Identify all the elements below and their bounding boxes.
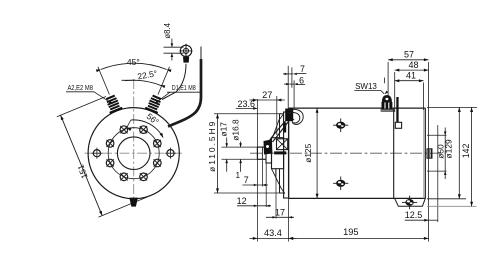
svg-text:41: 41 xyxy=(406,70,416,80)
svg-text:27: 27 xyxy=(262,90,272,100)
svg-text:ø129: ø129 xyxy=(443,139,453,158)
svg-text:45°: 45° xyxy=(127,57,140,67)
svg-text:ø125: ø125 xyxy=(303,143,313,162)
svg-text:ø110.5H9: ø110.5H9 xyxy=(207,120,217,172)
svg-text:ø17: ø17 xyxy=(219,122,229,137)
svg-text:A2,E2 M8: A2,E2 M8 xyxy=(67,83,93,92)
svg-text:48: 48 xyxy=(408,60,418,70)
svg-text:SW13: SW13 xyxy=(355,82,377,91)
svg-text:7: 7 xyxy=(300,64,305,74)
svg-text:D1,E1 M8: D1,E1 M8 xyxy=(172,83,196,92)
svg-text:23.6: 23.6 xyxy=(238,99,256,109)
svg-text:43.4: 43.4 xyxy=(264,228,282,238)
svg-text:57: 57 xyxy=(404,49,414,59)
svg-text:6: 6 xyxy=(299,75,304,85)
svg-text:7: 7 xyxy=(244,175,249,185)
svg-text:17: 17 xyxy=(275,208,285,218)
svg-text:ø8.4: ø8.4 xyxy=(163,22,172,38)
svg-text:142: 142 xyxy=(461,143,471,158)
svg-text:1: 1 xyxy=(236,171,241,180)
svg-text:195: 195 xyxy=(343,227,358,237)
svg-text:12.5: 12.5 xyxy=(405,210,423,220)
svg-text:12: 12 xyxy=(237,196,247,206)
svg-text:ø16.8: ø16.8 xyxy=(231,119,241,141)
